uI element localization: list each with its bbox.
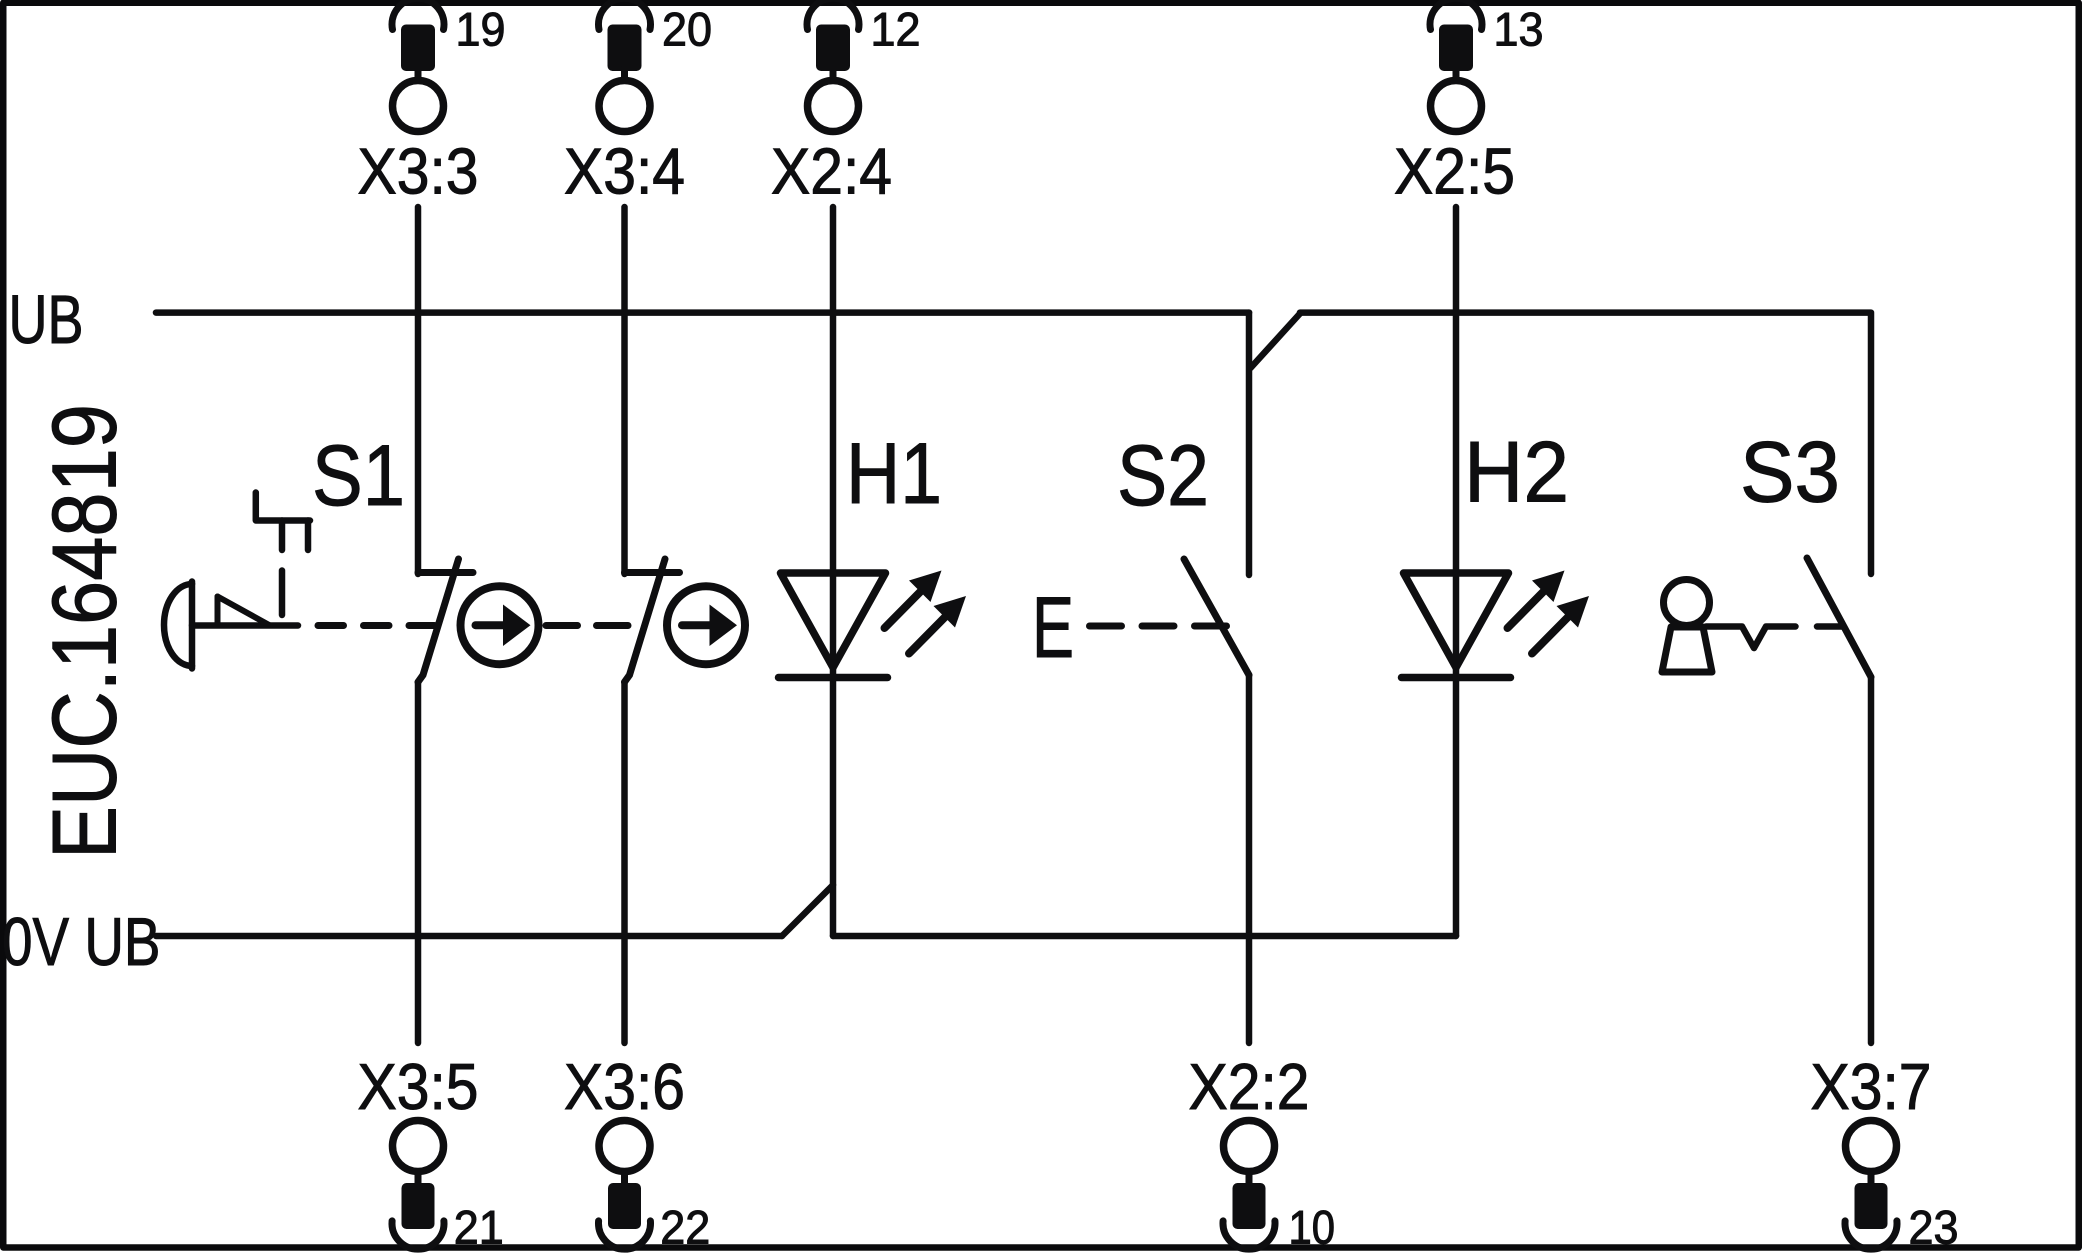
svg-text:20: 20 (662, 3, 712, 56)
svg-text:H2: H2 (1464, 425, 1569, 521)
wire 0V UB bus right segment (833, 933, 1456, 940)
svg-text:13: 13 (1494, 3, 1544, 56)
svg-text:X2:4: X2:4 (771, 136, 892, 208)
terminal X3:5 (392, 1121, 444, 1250)
S2 actuator E dashed link (1090, 623, 1227, 630)
wire S1 contact a bottom to X3:5 (415, 682, 422, 1043)
terminal X2:2 (1223, 1121, 1275, 1250)
terminal X2:4 (807, 0, 859, 132)
svg-text:EUC.164819: EUC.164819 (35, 404, 136, 859)
S1 actuator link dashed to contact a (318, 622, 442, 629)
S3 NO contact blade (1807, 558, 1871, 677)
wire X2:4 through H1 to 0V UB (830, 207, 837, 936)
terminal X3:6 (599, 1121, 651, 1250)
svg-text:21: 21 (454, 1201, 504, 1254)
svg-text:10: 10 (1289, 1201, 1336, 1254)
wire UB bus right segment with corner down to S3 (1300, 313, 1871, 574)
svg-text:X3:6: X3:6 (564, 1051, 685, 1123)
wire S2 contact bottom to X2:2 (1246, 675, 1253, 1043)
S1 direct opening action symbol b (667, 586, 745, 664)
terminal X3:4 (598, 0, 650, 131)
S1 turn-to-release ramp (218, 597, 271, 626)
svg-text:H1: H1 (846, 426, 942, 522)
pushbutton S1 mushroom head (164, 582, 298, 669)
wire UB bus left segment (156, 309, 1249, 316)
S1 direct opening action symbol a (461, 586, 539, 664)
wire 0V UB bus left segment (156, 933, 782, 940)
svg-text:12: 12 (871, 3, 921, 56)
wire X3:3 to S1 contact a top (415, 207, 422, 574)
wire 0V UB diagonal jog to H1 (782, 885, 833, 936)
S3 actuator link with notch (1706, 627, 1843, 649)
S1 latching detent symbol (256, 493, 310, 551)
wire UB to S2 contact top (1246, 313, 1253, 575)
svg-text:S1: S1 (312, 428, 405, 524)
svg-text:UB: UB (9, 281, 84, 358)
svg-text:X2:5: X2:5 (1394, 136, 1515, 208)
S1 actuator link vertical dash (279, 571, 286, 616)
svg-text:22: 22 (660, 1201, 710, 1254)
svg-text:E: E (1032, 580, 1074, 676)
wire X2:5 through H2 to 0V UB (1453, 207, 1460, 936)
wire S1 contact b bottom to X3:6 (621, 682, 628, 1043)
svg-text:0V UB: 0V UB (2, 904, 161, 980)
LED H1 (779, 571, 967, 678)
svg-text:X2:2: X2:2 (1189, 1051, 1310, 1123)
svg-text:X3:7: X3:7 (1811, 1051, 1932, 1123)
wire S3 contact bottom to X3:7 (1868, 677, 1875, 1043)
wire X3:4 to S1 contact b top (621, 207, 628, 574)
terminal X2:5 (1430, 0, 1482, 132)
svg-text:S3: S3 (1740, 425, 1840, 521)
key switch S3 key symbol (1662, 580, 1712, 673)
svg-text:23: 23 (1909, 1201, 1959, 1254)
svg-text:X3:4: X3:4 (564, 136, 685, 208)
svg-text:S2: S2 (1117, 428, 1209, 524)
terminal X3:3 (392, 0, 444, 131)
terminal X3:7 (1845, 1121, 1897, 1250)
S1 NC contact a (418, 559, 473, 682)
svg-text:19: 19 (456, 3, 506, 56)
wire UB branch diagonal jog to S2 (1251, 314, 1301, 369)
S1 actuator link dashed to contact b (546, 622, 630, 629)
S1 NC contact b (625, 559, 680, 682)
LED H2 (1402, 571, 1590, 678)
svg-text:X3:5: X3:5 (358, 1051, 479, 1123)
svg-text:X3:3: X3:3 (358, 136, 479, 208)
S2 NO contact blade (1184, 559, 1249, 675)
